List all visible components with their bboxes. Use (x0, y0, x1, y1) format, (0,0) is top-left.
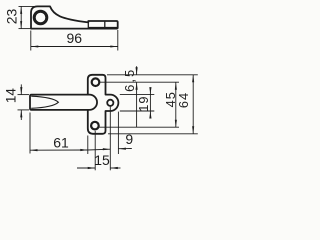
plan view: tab hole (107, 100, 113, 106)
ext top hole centre (99, 81, 179, 83)
dim 61 extension left (tongue tip) (29, 113, 31, 154)
dim 15 line left (77, 167, 95, 169)
plan view: bottom screw hole (91, 122, 99, 130)
dim 6,5 line upper (136, 66, 138, 75)
ext plate top edge (107, 74, 198, 76)
dim 19 line (149, 88, 151, 118)
side view: part outline (31, 6, 118, 28)
side view: eye hole (34, 11, 47, 24)
side view: raised strip inner bottom (89, 26, 118, 28)
plan view: tongue outline (30, 95, 97, 110)
svg-text:64: 64 (176, 92, 191, 108)
dim 14 extension bottom (18, 109, 30, 111)
dim 96 extension left (30, 31, 32, 51)
dim 14 line top (20, 84, 22, 94)
dim 9 line right (118, 148, 131, 150)
ext tab bottom (120, 110, 155, 112)
dim 23 extension top (19, 5, 38, 7)
side view: step tick 2 (104, 21, 106, 29)
side view: step tick 1 (87, 21, 89, 29)
ext tab top (120, 94, 155, 96)
ext bottom hole centre (99, 126, 179, 128)
dim 96 line (31, 46, 118, 48)
dim 61 extension right (plate edge) (87, 136, 89, 155)
dim 15 line right (110, 167, 120, 169)
ext plate bottom edge (108, 133, 198, 135)
dim 15 extension (bottom hole centre) (94, 131, 96, 171)
svg-text:6,5: 6,5 (122, 68, 137, 92)
dim 14 extension top (18, 94, 30, 96)
svg-text:61: 61 (53, 134, 69, 150)
dim 23 extension bottom (19, 28, 32, 30)
dim 9 extension b (tab end) (117, 112, 119, 154)
dim 64 line (192, 75, 194, 134)
plan view: tongue tip bevel (31, 96, 58, 108)
svg-text:23: 23 (3, 9, 19, 25)
svg-text:96: 96 (67, 30, 83, 46)
dim 6,5 line lower (long tail) (136, 82, 138, 127)
dim 23 line (20, 6, 22, 28)
svg-text:14: 14 (4, 88, 19, 104)
svg-text:15: 15 (94, 152, 110, 168)
svg-text:19: 19 (136, 95, 151, 111)
dim 96 extension right (117, 30, 119, 51)
dim 9 line left (88, 148, 111, 151)
dim 9 extension a (tab hole centre) (109, 107, 111, 171)
plan view: plate outline (88, 75, 119, 134)
dim 14 line bottom (20, 110, 22, 120)
plan view: top screw hole (92, 78, 100, 86)
dim 61 line (30, 149, 88, 151)
dim 45 line (175, 82, 177, 127)
